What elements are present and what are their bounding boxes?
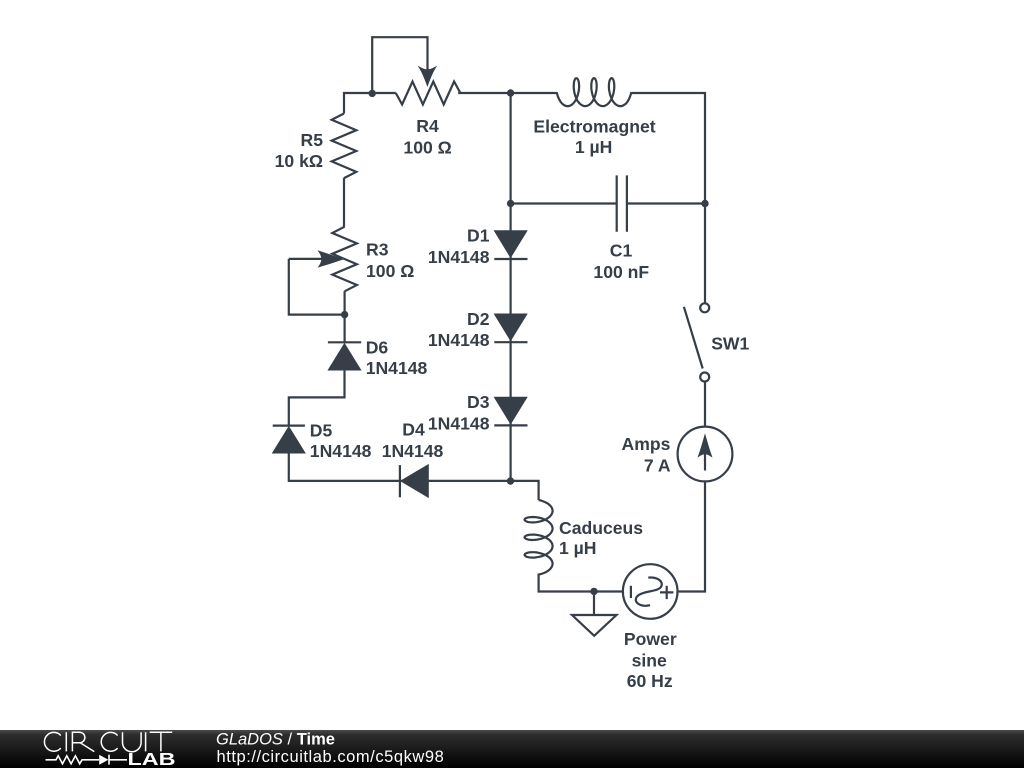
svg-text:1N4148: 1N4148: [428, 330, 490, 350]
svg-text:R4: R4: [416, 116, 439, 136]
svg-text:7 A: 7 A: [644, 456, 671, 476]
svg-text:D6: D6: [366, 337, 389, 357]
svg-text:sine: sine: [632, 650, 667, 670]
svg-text:D1: D1: [467, 226, 490, 246]
svg-text:1 µH: 1 µH: [559, 538, 597, 558]
svg-text:10 kΩ: 10 kΩ: [275, 151, 323, 171]
svg-text:GLaDOS / Time: GLaDOS / Time: [216, 731, 335, 749]
svg-text:D5: D5: [310, 420, 333, 440]
svg-text:1 µH: 1 µH: [575, 137, 613, 157]
svg-text:R3: R3: [366, 239, 389, 259]
svg-text:Electromagnet: Electromagnet: [533, 117, 655, 137]
svg-text:Caduceus: Caduceus: [559, 518, 643, 538]
svg-text:D4: D4: [402, 420, 425, 440]
svg-text:100 Ω: 100 Ω: [366, 261, 414, 281]
svg-text:100 Ω: 100 Ω: [403, 137, 451, 157]
svg-text:100 nF: 100 nF: [593, 262, 649, 282]
svg-text:1N4148: 1N4148: [366, 358, 428, 378]
svg-text:http://circuitlab.com/c5qkw98: http://circuitlab.com/c5qkw98: [217, 748, 445, 766]
svg-text:SW1: SW1: [711, 333, 749, 353]
svg-text:D3: D3: [467, 392, 490, 412]
svg-text:1N4148: 1N4148: [382, 441, 444, 461]
svg-text:1N4148: 1N4148: [428, 413, 490, 433]
svg-text:C1: C1: [610, 241, 633, 261]
svg-text:R5: R5: [301, 130, 324, 150]
svg-text:Amps: Amps: [622, 434, 671, 454]
svg-text:LAB: LAB: [128, 750, 176, 768]
svg-text:60 Hz: 60 Hz: [627, 671, 673, 691]
svg-text:1N4148: 1N4148: [310, 441, 372, 461]
svg-text:Power: Power: [624, 629, 677, 649]
svg-text:1N4148: 1N4148: [428, 247, 490, 267]
svg-text:D2: D2: [467, 309, 490, 329]
